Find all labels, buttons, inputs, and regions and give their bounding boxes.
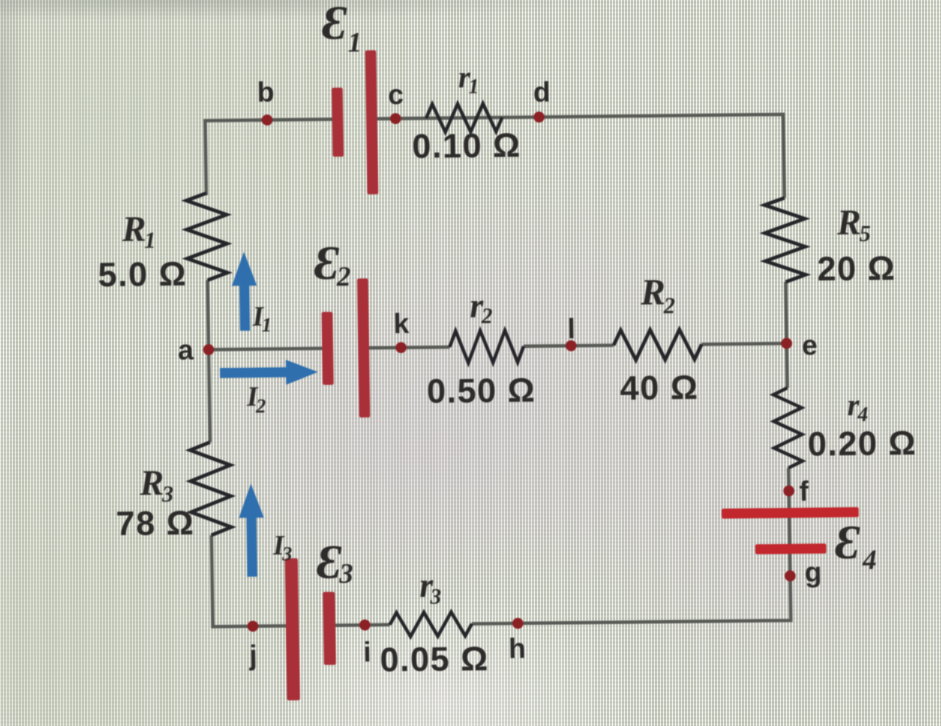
battery E2 tall plate — [357, 278, 370, 417]
svg-text:0.20 Ω: 0.20 Ω — [807, 425, 916, 464]
resistor R3 78 ohm — [190, 442, 231, 535]
wire r3 to h continues right — [472, 622, 518, 626]
wire R2 to e — [702, 342, 787, 346]
wire R5 to e to r4 — [786, 282, 788, 388]
wire E3 to i to r3 to h — [329, 623, 390, 627]
svg-text:f: f — [799, 476, 809, 507]
wire bottom-left corner j to E3 — [211, 534, 293, 626]
wire c to d to top-right corner — [372, 114, 784, 202]
node e — [781, 338, 792, 349]
wire E2 to k to r2 — [364, 345, 450, 349]
svg-text:r3: r3 — [419, 566, 441, 609]
svg-text:20 Ω: 20 Ω — [817, 250, 896, 289]
svg-text:R3: R3 — [139, 463, 174, 507]
svg-text:Ɛ1: Ɛ1 — [322, 0, 362, 59]
svg-text:r1: r1 — [458, 59, 479, 98]
wire a to battery E2 — [209, 348, 328, 349]
battery E3 tall plate — [285, 558, 300, 700]
svg-text:r4: r4 — [847, 387, 868, 426]
resistor r1 0.10 ohm — [426, 103, 502, 132]
node l — [565, 340, 576, 351]
wire r2 to l to R2 — [524, 344, 614, 348]
node j — [247, 621, 258, 632]
battery E4 short plate — [755, 544, 826, 555]
svg-text:e: e — [802, 330, 818, 361]
svg-text:40 Ω: 40 Ω — [620, 369, 699, 408]
resistor R1 5.0 ohm — [186, 193, 227, 280]
current arrow I2 — [220, 359, 318, 385]
battery E4 long plate — [722, 507, 859, 518]
svg-text:j: j — [248, 640, 257, 671]
node i — [359, 619, 370, 630]
battery E3 short plate — [323, 592, 336, 665]
wire top-left corner b to c — [205, 119, 338, 195]
svg-text:c: c — [388, 79, 404, 110]
svg-text:R1: R1 — [121, 209, 156, 253]
svg-text:Ɛ3: Ɛ3 — [316, 536, 353, 590]
node b — [262, 114, 273, 125]
svg-text:78 Ω: 78 Ω — [116, 504, 195, 543]
svg-text:0.50 Ω: 0.50 Ω — [427, 372, 536, 411]
svg-text:I1: I1 — [251, 301, 271, 336]
svg-text:l: l — [567, 313, 575, 344]
svg-text:i: i — [363, 636, 371, 667]
svg-text:I3: I3 — [272, 530, 292, 565]
resistor r2 0.50 ohm — [449, 330, 523, 363]
svg-text:a: a — [178, 334, 194, 365]
battery E1 tall plate — [365, 50, 378, 194]
svg-text:0.10 Ω: 0.10 Ω — [412, 127, 521, 166]
node h — [512, 618, 523, 629]
resistor r4 0.20 ohm — [773, 388, 802, 468]
wire left mid R1 to a to R3 — [208, 280, 210, 442]
svg-text:Ɛ4: Ɛ4 — [835, 516, 877, 576]
svg-text:I2: I2 — [246, 382, 266, 418]
svg-text:k: k — [393, 308, 409, 339]
current arrow I1 — [231, 252, 257, 331]
battery E2 short plate — [322, 312, 334, 385]
svg-text:g: g — [804, 557, 822, 588]
node a — [203, 344, 214, 355]
node f — [783, 485, 794, 496]
svg-text:0.05 Ω: 0.05 Ω — [380, 640, 489, 679]
resistor r3 0.05 ohm — [390, 612, 472, 637]
svg-text:h: h — [508, 633, 526, 664]
svg-text:R2: R2 — [639, 272, 675, 318]
node g — [785, 570, 796, 581]
wire r4 to f to E4 to g to bottom-right corner — [516, 468, 791, 623]
battery E1 short plate — [332, 88, 344, 157]
node d — [533, 111, 544, 122]
node k — [395, 342, 406, 353]
current arrow I3 — [238, 484, 264, 577]
svg-text:r2: r2 — [469, 286, 492, 328]
resistor R5 20 ohm — [764, 198, 805, 282]
resistor R2 40 ohm — [613, 329, 701, 360]
node c — [390, 113, 401, 124]
svg-text:R5: R5 — [836, 202, 871, 246]
svg-text:b: b — [257, 76, 275, 107]
svg-text:5.0 Ω: 5.0 Ω — [98, 255, 188, 294]
svg-text:Ɛ2: Ɛ2 — [314, 237, 351, 293]
svg-text:d: d — [533, 76, 551, 107]
